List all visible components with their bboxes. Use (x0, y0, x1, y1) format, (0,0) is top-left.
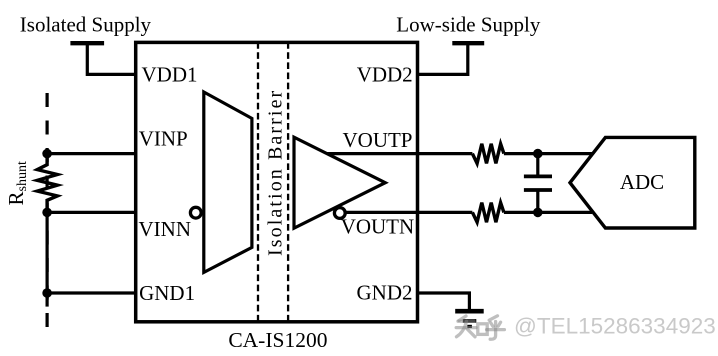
svg-text:VOUTN: VOUTN (341, 215, 415, 239)
svg-text:VINN: VINN (139, 217, 192, 241)
wire: shunt dashed current path (45, 93, 48, 328)
IC body CA-IS1200 (136, 42, 418, 321)
resistor R1 (VOUTP filter) (472, 144, 504, 164)
wire stub below GND1 node (45, 293, 48, 307)
wire VOUTP to ADC (504, 152, 592, 155)
svg-text:Isolated Supply: Isolated Supply (20, 13, 152, 37)
isolation barrier dashed line left (257, 42, 259, 322)
wire VINN (47, 211, 190, 214)
op-amp U1 input trapezoid (204, 92, 252, 272)
node VINN junction (42, 208, 52, 218)
capacitor C1 bottom lead (536, 190, 539, 212)
low-side supply rail bar (452, 41, 484, 45)
resistor R2 (VOUTN filter) (472, 203, 504, 223)
ground symbol bar 2 (463, 319, 477, 323)
wire VOUTP (327, 152, 472, 155)
isolated supply rail bar (70, 41, 104, 45)
ground symbol bar 1 (455, 309, 484, 314)
wire VOUTN (346, 211, 472, 214)
capacitor C1 bottom plate (524, 188, 552, 192)
node VOUTN junction (533, 208, 543, 218)
watermark zhihu logo 知乎 (456, 316, 504, 339)
wire VINP (47, 152, 205, 155)
wire VOUTN to ADC (504, 211, 592, 214)
node VINP junction (42, 149, 52, 159)
svg-text:VINP: VINP (139, 127, 188, 151)
wire VDD1 pin to supply (87, 43, 135, 74)
svg-text:Low-side Supply: Low-side Supply (396, 13, 541, 37)
capacitor C1 top plate (524, 174, 552, 178)
wire GND2 pin (418, 293, 470, 309)
svg-text:GND1: GND1 (139, 281, 195, 305)
svg-text:VDD2: VDD2 (357, 62, 413, 86)
svg-text:Isolation Barrier: Isolation Barrier (265, 89, 287, 256)
ADC block (570, 137, 695, 228)
resistor Rshunt (37, 154, 57, 213)
capacitor C1 top lead (536, 154, 539, 176)
svg-text:CA-IS1200: CA-IS1200 (228, 328, 327, 352)
wire GND1 (47, 291, 137, 294)
ground symbol bar 3 (467, 325, 472, 328)
isolation barrier dashed line right (287, 42, 289, 322)
svg-text:@TEL15286334923: @TEL15286334923 (514, 314, 716, 339)
wire shunt bottom segment (45, 212, 48, 293)
node VOUTP junction (533, 149, 543, 159)
svg-text:GND2: GND2 (357, 280, 413, 304)
pin bubble VINN (190, 207, 201, 218)
svg-text:VDD1: VDD1 (142, 62, 198, 86)
svg-text:ADC: ADC (620, 170, 664, 194)
svg-text:VOUTP: VOUTP (342, 128, 412, 152)
pin bubble VOUTN (334, 208, 345, 219)
op-amp U1 output triangle (294, 137, 385, 228)
wire VDD2 pin to supply (418, 43, 468, 74)
node GND1 junction (42, 288, 52, 298)
